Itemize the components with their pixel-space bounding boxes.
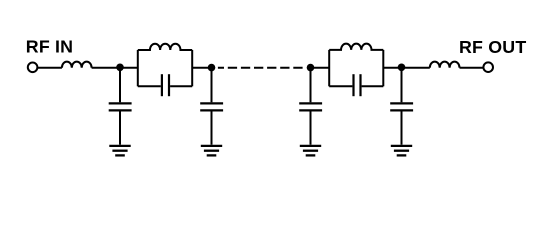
- capacitor C5 right lead: [362, 85, 384, 87]
- parallel LC resonator tank 2: box left edge: [328, 50, 330, 86]
- wire: tank 1 to node B: [192, 67, 213, 69]
- shunt capacitor C4: wire from node C down: [310, 68, 312, 103]
- ground (under C1): [109, 146, 130, 156]
- shunt capacitor C1 bottom plate: [109, 109, 132, 111]
- inductor L4 (series output inductor): [430, 62, 460, 68]
- shunt capacitor C4 bottom plate: [299, 109, 322, 111]
- capacitor C5 right plate: [359, 74, 361, 96]
- shunt capacitor C6 top plate: [390, 102, 413, 104]
- node A (junction dot): [116, 64, 124, 72]
- shunt capacitor C1 top plate: [109, 102, 132, 104]
- wire: input terminal to L1: [38, 67, 62, 69]
- shunt capacitor C1: wire from node A down: [119, 68, 121, 103]
- parallel LC resonator tank 1: box left edge: [137, 50, 139, 86]
- wire: C4 to ground: [310, 112, 312, 145]
- wire: C6 to ground: [401, 112, 403, 145]
- wire: node C to tank 2: [309, 67, 329, 69]
- wire: C1 to ground: [119, 112, 121, 145]
- wire: C3 to ground: [211, 112, 213, 145]
- shunt capacitor C6: wire from node D down: [401, 68, 403, 103]
- wire: tank 2 to node D: [383, 67, 430, 69]
- ground (under C3): [201, 146, 222, 156]
- capacitor C5 (tank 2 bottom branch): left lead: [329, 85, 352, 87]
- shunt capacitor C3 bottom plate: [200, 109, 223, 111]
- capacitor C2 right lead: [170, 85, 192, 87]
- inductor L1 (series input inductor): [62, 62, 92, 68]
- shunt capacitor C3: wire from node B down: [211, 68, 213, 103]
- input terminal (RF IN port): [28, 63, 38, 73]
- inductor L3 (tank 2 top branch with coil): [329, 44, 383, 50]
- tank 1 box right edge: [191, 50, 193, 86]
- shunt capacitor C6 bottom plate: [390, 109, 413, 111]
- capacitor C2 right plate: [168, 74, 170, 96]
- wire: L4 to output terminal: [460, 67, 484, 69]
- capacitor C2 (tank 1 bottom branch): left lead: [138, 85, 161, 87]
- svg-text:RF IN: RF IN: [26, 37, 73, 57]
- node B (junction dot): [208, 64, 216, 72]
- ground (under C4): [300, 146, 321, 156]
- output terminal (RF OUT port): [483, 62, 493, 72]
- node C (junction dot): [307, 64, 315, 72]
- capacitor C2 left plate: [161, 74, 163, 96]
- svg-text:RF OUT: RF OUT: [459, 37, 526, 57]
- ground (under C6): [391, 146, 412, 156]
- node D (junction dot): [398, 64, 406, 72]
- wire: dashed line (repeated sections) node B to node C: [218, 67, 303, 69]
- inductor L2 (tank 1 top branch with coil): [138, 44, 192, 50]
- wire: L1 to node A: [92, 67, 138, 69]
- shunt capacitor C3 top plate: [200, 102, 223, 104]
- capacitor C5 left plate: [352, 74, 354, 96]
- tank 2 box right edge: [382, 50, 384, 86]
- shunt capacitor C4 top plate: [299, 102, 322, 104]
